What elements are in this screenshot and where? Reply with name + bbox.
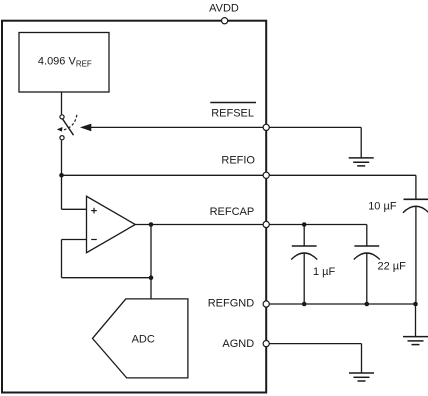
svg-text:REFCAP: REFCAP — [210, 206, 255, 218]
svg-text:10 µF: 10 µF — [368, 200, 397, 212]
svg-text:22 µF: 22 µF — [378, 260, 407, 272]
svg-text:REFGND: REFGND — [208, 297, 255, 309]
svg-text:REFIO: REFIO — [221, 155, 255, 167]
svg-text:REFSEL: REFSEL — [211, 108, 254, 120]
svg-text:ADC: ADC — [132, 334, 155, 346]
svg-text:AGND: AGND — [222, 338, 254, 350]
svg-text:1 µF: 1 µF — [313, 266, 336, 278]
svg-text:AVDD: AVDD — [209, 3, 239, 15]
